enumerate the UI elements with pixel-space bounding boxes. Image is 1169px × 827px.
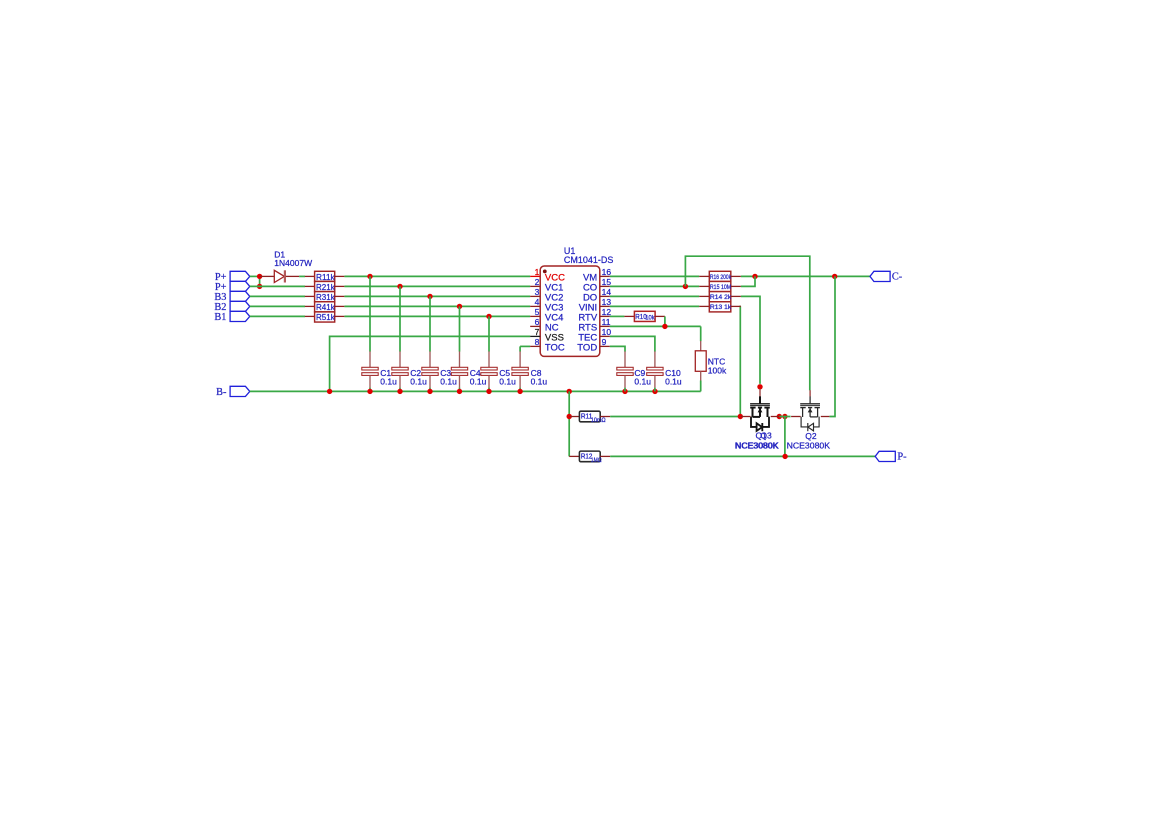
U1 pin 13 stub <box>600 305 610 307</box>
junction node B- rail x=489.0 <box>486 389 491 394</box>
wire U1 TEC down to C10 <box>610 336 655 351</box>
transistor Q1 (overlapped with Q3) NCE3080K <box>741 389 779 431</box>
svg-text:11: 11 <box>602 317 611 327</box>
resistor R2 1k <box>305 281 345 292</box>
junction node VC1 tap C2 <box>397 284 402 289</box>
svg-text:1: 1 <box>535 267 540 277</box>
svg-text:B-: B- <box>216 387 227 398</box>
svg-text:CM1041-DS: CM1041-DS <box>564 255 614 265</box>
junction node Q1/Q3 gate <box>757 384 762 389</box>
junction node VC3 tap C4 <box>457 304 462 309</box>
svg-text:1MΩ: 1MΩ <box>591 457 602 464</box>
wire R15 right to VM node <box>741 276 755 286</box>
U1 pin 15 stub <box>600 285 610 287</box>
resistor R10 10k <box>624 311 665 321</box>
svg-text:0.1u: 0.1u <box>665 377 682 387</box>
junction node VC2 tap C3 <box>427 294 432 299</box>
svg-text:10mΩ: 10mΩ <box>591 417 606 424</box>
junction node P+ row2 <box>257 284 262 289</box>
capacitor C10 0.1u <box>647 351 682 391</box>
junction node CO branch up <box>683 284 688 289</box>
U1 pin 5 stub <box>530 315 540 317</box>
port P+ (second) <box>215 281 250 292</box>
junction node B- rail x=569.2 <box>567 389 572 394</box>
U1 pin 9 stub <box>600 345 610 347</box>
wire U1 RTS to NTC <box>610 325 701 327</box>
port B1 <box>214 311 249 322</box>
svg-text:R21k: R21k <box>316 282 335 292</box>
svg-text:0.1u: 0.1u <box>470 377 487 387</box>
junction node VC0 tap C1 <box>367 274 372 279</box>
wire U1 RTV to R10 <box>610 315 625 317</box>
U1 pin 12 stub <box>600 315 610 317</box>
thermistor NTC 100k <box>695 326 706 391</box>
capacitor C5 0.1u <box>481 316 516 391</box>
port B2 <box>214 301 249 312</box>
resistor R4 1k <box>305 302 345 312</box>
wire U1 TOD down to C9 <box>610 346 625 351</box>
U1 pin1 marker <box>543 270 547 274</box>
junction node R11 left <box>567 414 572 419</box>
svg-text:C-: C- <box>892 271 903 282</box>
wire R10 right down to RTS row <box>664 316 666 326</box>
U1 pin 3 stub <box>530 295 540 297</box>
wire U1 VINI to R13 <box>610 305 700 307</box>
svg-text:R51k: R51k <box>316 312 335 322</box>
svg-text:Q2: Q2 <box>805 431 817 441</box>
svg-text:R15 10M: R15 10M <box>710 284 731 291</box>
svg-text:8: 8 <box>535 337 540 347</box>
svg-text:0.1u: 0.1u <box>410 377 427 387</box>
wire D1 to R1 <box>299 275 305 277</box>
wire R12 / P- row <box>610 455 875 457</box>
svg-text:R11k: R11k <box>316 272 335 282</box>
capacitor C3 0.1u <box>422 296 457 391</box>
resistor R11 10mOhm <box>569 411 610 424</box>
junction node B- rail x=329.6 <box>327 389 332 394</box>
U1 pin 7 stub <box>530 335 540 337</box>
svg-text:2: 2 <box>535 277 540 287</box>
port P- <box>875 451 907 462</box>
U1 pin 1 stub <box>530 275 540 277</box>
junction node B- rail x=520.1 <box>517 389 522 394</box>
wire U1 VSS pin7 to B- rail <box>330 336 531 391</box>
U1 pin 11 stub <box>600 325 610 327</box>
capacitor C8 0.1u <box>512 346 548 391</box>
resistor R5 1k <box>305 312 345 322</box>
resistor R13 1k <box>699 302 741 312</box>
resistor R15 10M <box>699 281 741 291</box>
svg-text:1N4007W: 1N4007W <box>274 258 312 268</box>
svg-text:TOC: TOC <box>545 343 565 354</box>
junction node B- rail x=370.0 <box>367 389 372 394</box>
svg-text:3: 3 <box>535 287 540 297</box>
capacitor C4 0.1u <box>451 306 486 391</box>
U1 pin 2 stub <box>530 285 540 287</box>
wire B- rail down to R11/R12 <box>568 391 570 456</box>
resistor R12 1M <box>569 451 610 464</box>
wire C8 top to U1 pin 8 <box>520 345 530 347</box>
svg-text:Q3: Q3 <box>760 430 772 440</box>
svg-text:10k: 10k <box>645 314 655 321</box>
svg-text:TOD: TOD <box>577 343 597 354</box>
wire B2 to R4 <box>250 305 305 307</box>
U1 pin 6 stub <box>530 325 540 327</box>
junction node VC4 tap C5 <box>486 314 491 319</box>
port P+ (top) <box>215 271 250 282</box>
svg-text:P-: P- <box>897 452 907 463</box>
capacitor C2 0.1u <box>392 286 427 391</box>
resistor R3 1k <box>305 292 345 302</box>
op-amp U1 CM1041-DS body <box>540 266 600 356</box>
wire R2 to U1 pin 2 <box>344 285 530 287</box>
svg-text:R14 2k: R14 2k <box>710 294 732 301</box>
port B3 <box>214 291 249 302</box>
svg-text:6: 6 <box>535 317 540 327</box>
wire R14 right to Q1 gate <box>741 296 760 384</box>
svg-text:4: 4 <box>535 297 540 307</box>
wire R16 to C- flag <box>741 275 870 277</box>
wire FET midpoint down to P- row <box>784 417 786 457</box>
transistor Q2 NCE3080K <box>791 390 829 431</box>
wire B3 to R3 <box>250 295 305 297</box>
capacitor C9 0.1u <box>617 351 651 391</box>
svg-text:B1: B1 <box>214 312 226 323</box>
wire B- rail <box>250 390 701 392</box>
svg-text:10: 10 <box>602 327 612 337</box>
junction node VM / R15 join <box>752 274 757 279</box>
wire U1 VM to R16 <box>610 275 700 277</box>
U1 pin 16 stub <box>600 275 610 277</box>
junction node Q1 drain <box>777 414 782 419</box>
wire CO to Q2 gate over the top <box>685 256 809 390</box>
svg-text:14: 14 <box>602 287 612 297</box>
svg-text:100k: 100k <box>708 365 727 375</box>
svg-text:5: 5 <box>535 307 540 317</box>
junction node B- rail x=459.5 <box>457 389 462 394</box>
svg-text:R31k: R31k <box>316 292 335 302</box>
svg-text:13: 13 <box>602 297 612 307</box>
wire U1 CO to R15 <box>610 285 700 287</box>
junction node P+ row1 <box>257 274 262 279</box>
svg-text:0.1u: 0.1u <box>380 377 397 387</box>
junction node B- rail x=655.0 <box>652 389 657 394</box>
wire Q1 drain to Q2 <box>779 416 790 418</box>
capacitor C1 0.1u <box>362 276 397 391</box>
resistor R1 1k <box>305 271 345 282</box>
wire R3 to U1 pin 3 <box>344 295 530 297</box>
svg-text:9: 9 <box>602 337 607 347</box>
resistor R14 2k <box>699 292 741 302</box>
svg-text:R13 1k: R13 1k <box>710 304 732 311</box>
junction node P- junction <box>782 454 787 459</box>
junction node C- / Q2 drain branch <box>832 274 837 279</box>
wire R13 right down to Q1 source node <box>739 306 742 416</box>
svg-text:R16 200k: R16 200k <box>710 274 732 281</box>
junction node RTS / R10 join <box>662 324 667 329</box>
wire P+ flag to junction <box>250 275 260 277</box>
diode D1 1N4007W <box>260 270 300 282</box>
wire U1 DO to R14 <box>610 295 700 297</box>
svg-text:15: 15 <box>602 277 612 287</box>
wire R5 to U1 pin 5 <box>344 315 530 317</box>
wire P+ to P+ vertical join <box>259 276 261 286</box>
junction node FET midpoint <box>782 414 787 419</box>
value NCE3080K (Q1/Q3, double-struck) <box>735 441 779 451</box>
svg-text:NCE3080K: NCE3080K <box>787 441 831 451</box>
U1 pin 10 stub <box>600 335 610 337</box>
U1 pin 4 stub <box>530 305 540 307</box>
U1 pin 14 stub <box>600 295 610 297</box>
svg-text:7: 7 <box>535 327 540 337</box>
wire B1 to R5 <box>250 315 305 317</box>
wire P+2 to R2 <box>250 285 305 287</box>
U1 pin 8 stub <box>530 345 540 347</box>
wire R1 to U1 pin 1 <box>344 275 530 277</box>
svg-text:R41k: R41k <box>316 302 335 312</box>
port C- <box>870 271 903 282</box>
junction node B- rail x=430.0 <box>427 389 432 394</box>
svg-text:0.1u: 0.1u <box>440 377 457 387</box>
junction node Q1 source <box>738 414 743 419</box>
transistor Q3 (overlaps Q1) <box>0 0 1 1</box>
svg-text:0.1u: 0.1u <box>531 377 548 387</box>
svg-text:0.1u: 0.1u <box>634 377 651 387</box>
svg-text:0.1u: 0.1u <box>499 377 516 387</box>
svg-text:12: 12 <box>602 307 612 317</box>
wire R11 to Q1 source <box>610 416 740 418</box>
wire Q2 right up to C- net <box>830 276 836 416</box>
svg-text:16: 16 <box>602 267 612 277</box>
resistor R16 200k <box>699 271 741 281</box>
junction node B- rail x=625.0 <box>622 389 627 394</box>
port B- <box>216 386 250 397</box>
svg-text:NCE3080K: NCE3080K <box>735 441 779 451</box>
wire R4 to U1 pin 4 <box>344 305 530 307</box>
junction node B- rail x=400.0 <box>397 389 402 394</box>
